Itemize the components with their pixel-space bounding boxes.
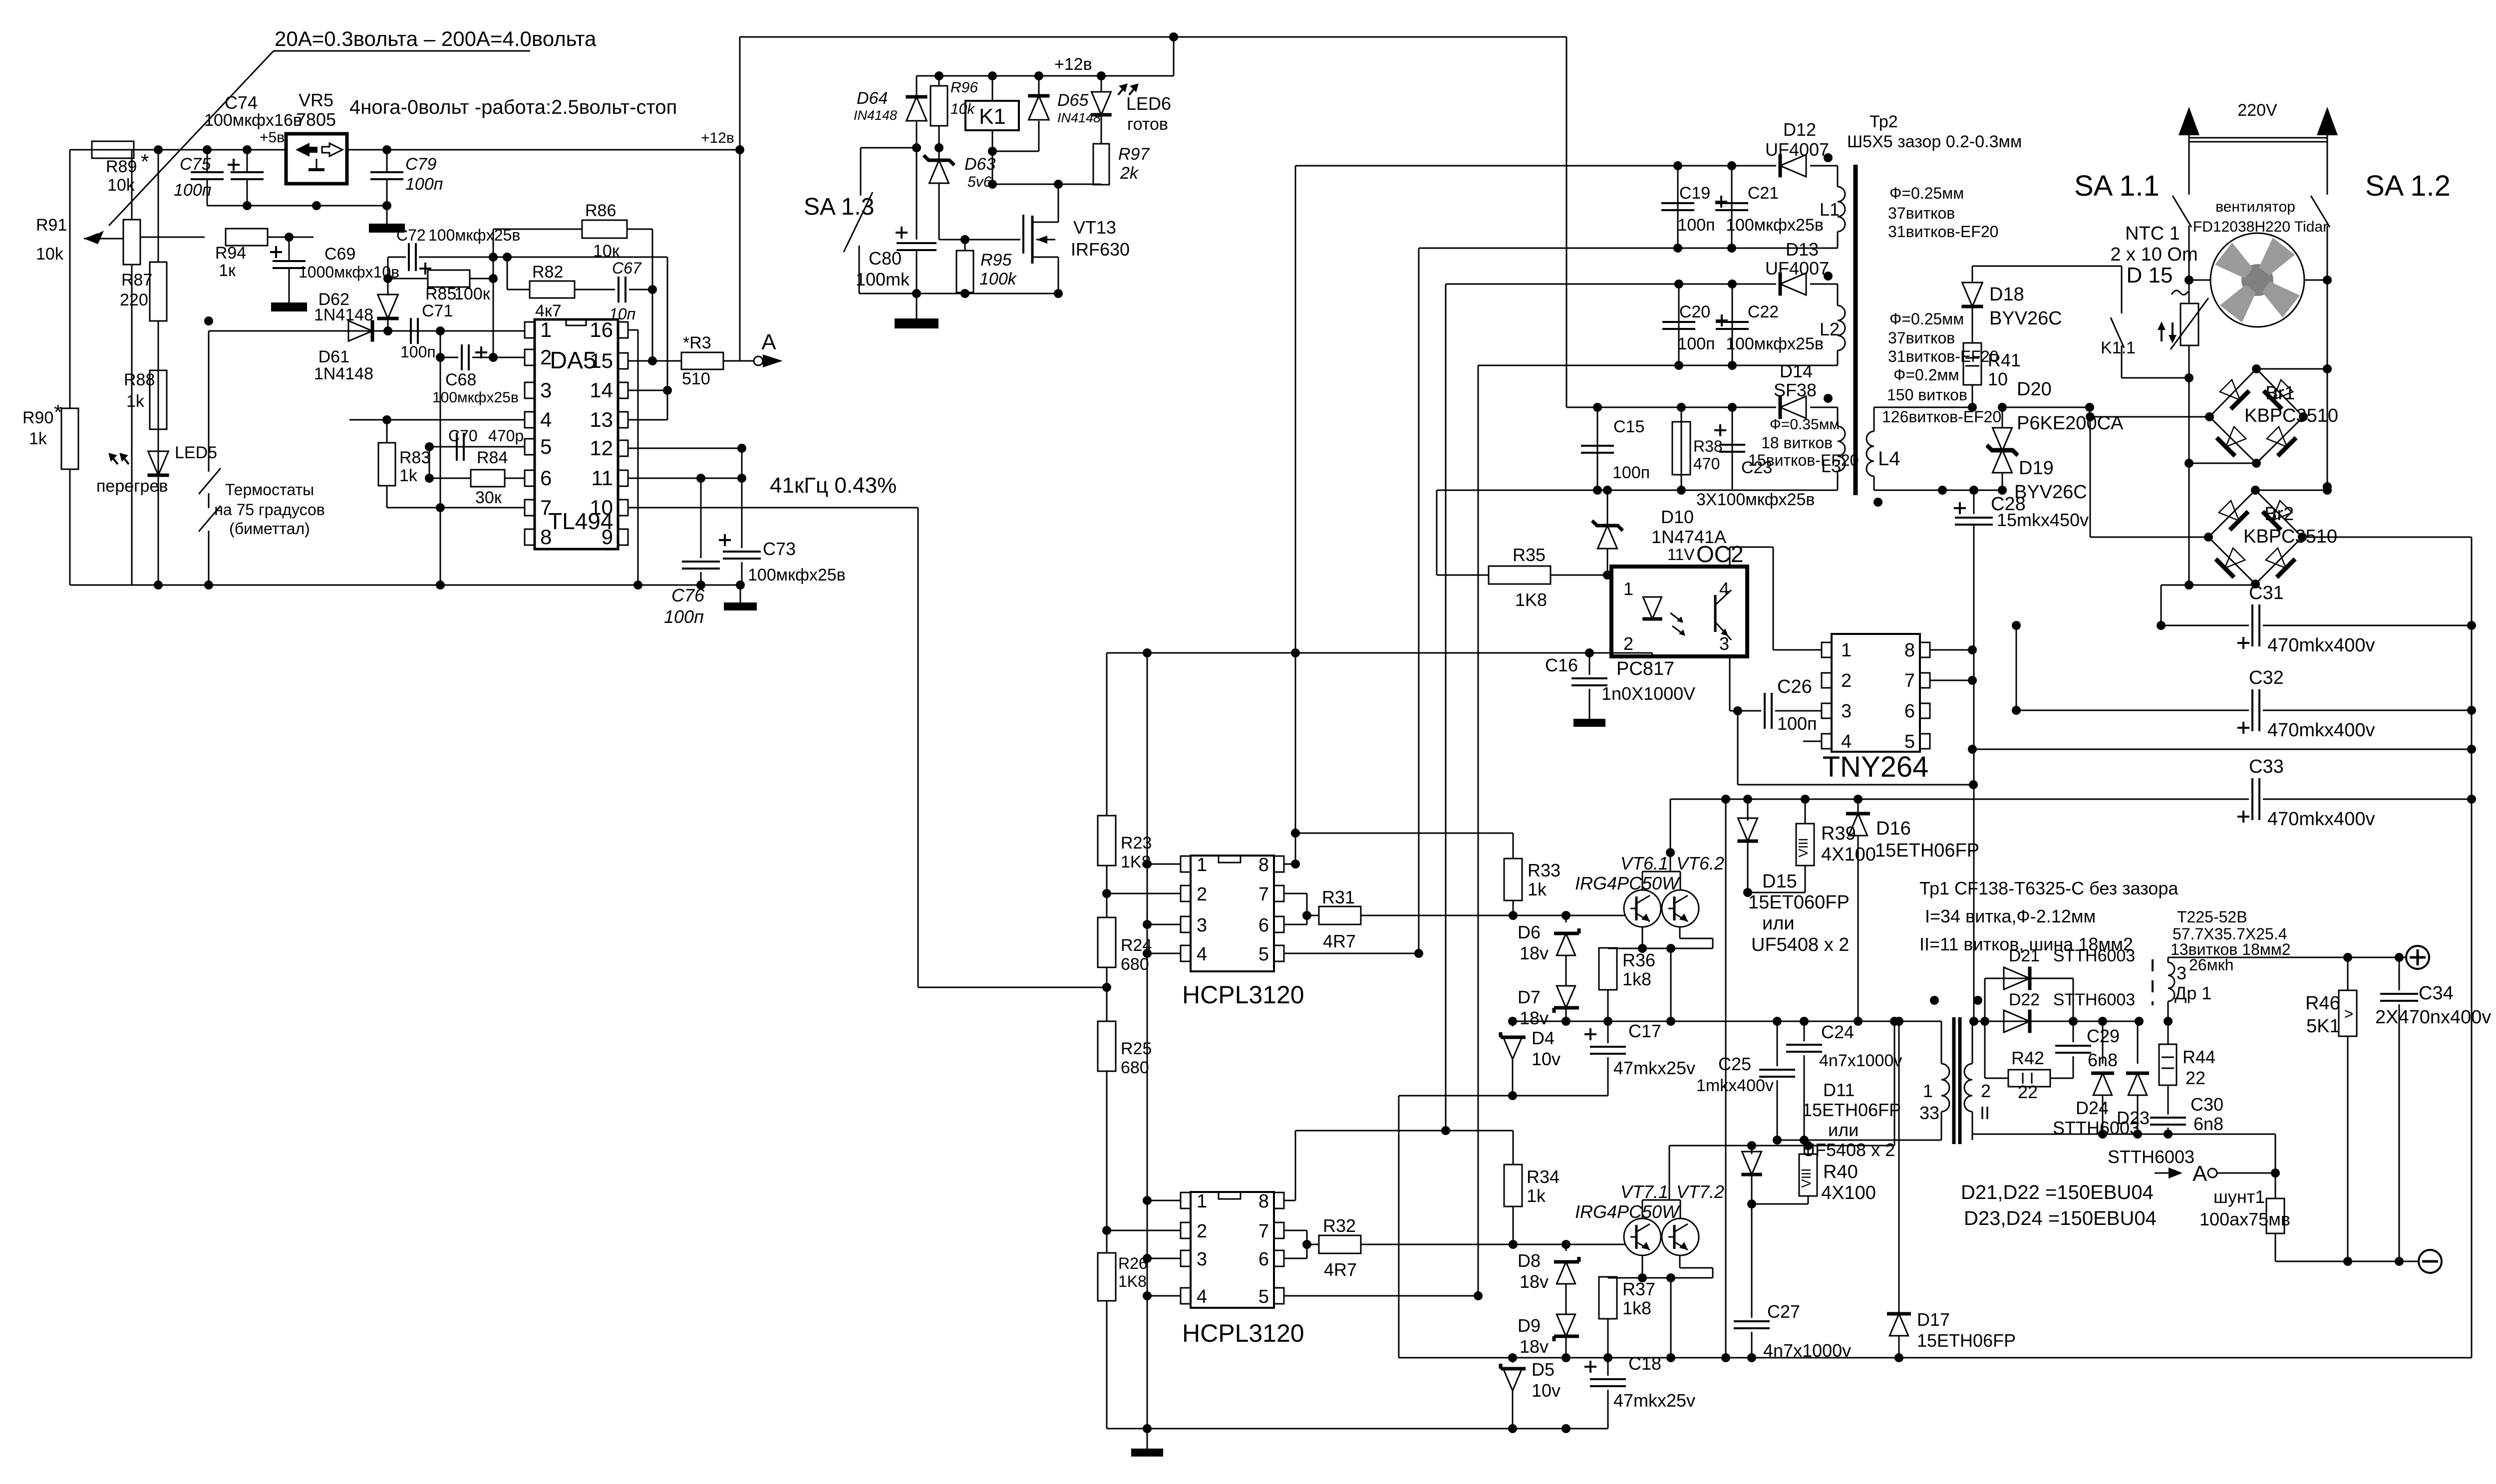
svg-text:C15: C15 [1613, 417, 1644, 436]
svg-text:D9: D9 [1518, 1315, 1541, 1336]
svg-text:100п: 100п [405, 175, 443, 194]
svg-text:4нога-0вольт -работа:2.5вольт-: 4нога-0вольт -работа:2.5вольт-стоп [349, 96, 677, 118]
svg-text:D7: D7 [1518, 987, 1541, 1007]
svg-text:1k: 1k [399, 466, 418, 485]
svg-text:D20: D20 [2017, 379, 2052, 400]
svg-text:R96: R96 [950, 79, 978, 96]
svg-text:D12: D12 [1783, 119, 1816, 140]
svg-text:15ETH06FP: 15ETH06FP [1875, 840, 1979, 861]
svg-text:4R7: 4R7 [1323, 931, 1356, 951]
svg-text:D18: D18 [1989, 284, 2024, 305]
svg-text:Тр1 CF138-Т6325-С без зазора: Тр1 CF138-Т6325-С без зазора [1919, 878, 2179, 898]
svg-text:10k: 10k [36, 245, 64, 264]
svg-text:R83: R83 [399, 448, 430, 467]
svg-text:(биметтал): (биметтал) [229, 520, 310, 538]
svg-text:22: 22 [2018, 1082, 2038, 1102]
svg-text:10: 10 [590, 496, 613, 519]
svg-text:6: 6 [1904, 701, 1915, 722]
svg-text:6: 6 [540, 466, 552, 490]
svg-text:VIII: VIII [1799, 1168, 1814, 1187]
svg-text:C21: C21 [1748, 184, 1779, 203]
svg-text:100к: 100к [454, 285, 491, 303]
svg-text:готов: готов [1127, 115, 1168, 134]
svg-text:18v: 18v [1520, 1008, 1549, 1028]
svg-text:+12в: +12в [701, 130, 734, 146]
svg-text:Ф=0.25мм: Ф=0.25мм [1889, 310, 1964, 328]
svg-text:C18: C18 [1628, 1353, 1661, 1374]
svg-text:11V: 11V [1667, 546, 1695, 564]
svg-text:C17: C17 [1628, 1021, 1661, 1041]
svg-text:D8: D8 [1518, 1250, 1541, 1271]
svg-text:UF4007: UF4007 [1765, 139, 1829, 160]
svg-text:HCPL3120: HCPL3120 [1182, 981, 1304, 1009]
svg-text:R38: R38 [1693, 437, 1723, 455]
svg-text:100k: 100k [979, 270, 1017, 289]
svg-text:1: 1 [1841, 640, 1852, 661]
svg-text:UF4007: UF4007 [1765, 258, 1829, 279]
svg-text:вентилятор: вентилятор [2215, 199, 2295, 215]
svg-text:VR5: VR5 [299, 90, 333, 110]
svg-text:8: 8 [1258, 855, 1269, 876]
svg-text:C26: C26 [1777, 676, 1812, 697]
svg-text:D61: D61 [318, 347, 349, 366]
svg-text:IN4148: IN4148 [854, 108, 897, 123]
svg-text:18 витков: 18 витков [1761, 434, 1833, 452]
svg-text:А: А [761, 330, 776, 354]
svg-text:C20: C20 [1679, 302, 1710, 321]
svg-text:16: 16 [590, 318, 613, 341]
svg-text:Ш5Х5 зазор 0.2-0.3мм: Ш5Х5 зазор 0.2-0.3мм [1847, 132, 2022, 151]
svg-text:1k: 1k [1528, 879, 1547, 899]
svg-text:С68: С68 [445, 370, 476, 389]
svg-text:15ETH06FP: 15ETH06FP [1917, 1330, 2016, 1351]
svg-text:D21,D22 =150EBU04: D21,D22 =150EBU04 [1961, 1182, 2154, 1203]
svg-text:Ф=0.35мм: Ф=0.35мм [1770, 416, 1840, 433]
svg-text:1k8: 1k8 [1622, 1298, 1651, 1318]
svg-text:C19: C19 [1679, 184, 1710, 203]
svg-text:1: 1 [1197, 1191, 1207, 1212]
svg-text:K1: K1 [979, 104, 1006, 129]
svg-text:D4: D4 [1532, 1028, 1555, 1048]
svg-text:D23,D24 =150EBU04: D23,D24 =150EBU04 [1964, 1207, 2157, 1229]
svg-text:C34: C34 [2419, 983, 2454, 1004]
svg-text:1k: 1k [1527, 1186, 1546, 1206]
svg-text:6: 6 [1258, 915, 1269, 936]
svg-text:PC817: PC817 [1616, 658, 1674, 679]
svg-text:10к: 10к [593, 242, 620, 261]
svg-text:UF5408 x 2: UF5408 x 2 [1751, 934, 1849, 955]
svg-text:13: 13 [590, 408, 613, 431]
svg-text:14: 14 [590, 378, 613, 402]
svg-text:FD12038H220 Tidar: FD12038H220 Tidar [2193, 219, 2328, 235]
svg-text:4: 4 [1197, 944, 1207, 965]
svg-text:Тр2: Тр2 [1870, 112, 1898, 131]
svg-text:1K8: 1K8 [1515, 590, 1547, 610]
svg-text:K1.1: K1.1 [2101, 338, 2136, 357]
svg-text:VIII: VIII [1796, 838, 1811, 857]
svg-text:D14: D14 [1780, 361, 1813, 381]
svg-text:SF38: SF38 [1774, 380, 1817, 400]
svg-text:R97: R97 [1118, 145, 1150, 164]
svg-text:Br1: Br1 [2265, 383, 2295, 404]
svg-text:510: 510 [682, 369, 710, 388]
svg-text:R88: R88 [124, 370, 155, 389]
svg-text:C31: C31 [2249, 583, 2284, 603]
svg-text:D63: D63 [964, 155, 995, 174]
svg-text:3: 3 [1197, 1249, 1207, 1270]
svg-text:SA 1.2: SA 1.2 [2365, 170, 2451, 202]
svg-text:5K1: 5K1 [2306, 1016, 2340, 1037]
svg-text:C16: C16 [1545, 655, 1578, 675]
svg-text:150 витков: 150 витков [1887, 386, 1967, 404]
svg-text:18v: 18v [1520, 943, 1549, 963]
svg-text:4n7x1000v: 4n7x1000v [1819, 1051, 1902, 1070]
svg-text:3: 3 [1841, 701, 1852, 722]
svg-text:D17: D17 [1917, 1309, 1950, 1330]
svg-text:20А=0.3вольта – 200А=4.0воль: 20А=0.3вольта – 200А=4.0вольта [275, 27, 597, 50]
svg-text:D5: D5 [1532, 1359, 1555, 1380]
svg-text:1k: 1k [126, 392, 145, 411]
svg-text:5: 5 [540, 435, 552, 458]
svg-text:26мкh: 26мкh [2189, 956, 2233, 974]
svg-text:шунт1: шунт1 [2213, 1187, 2265, 1207]
svg-text:4X100: 4X100 [1821, 844, 1876, 865]
svg-text:D24: D24 [2076, 1098, 2109, 1118]
svg-text:100ах75мв: 100ах75мв [2199, 1209, 2290, 1229]
svg-text:7: 7 [1258, 1221, 1269, 1242]
svg-text:R84: R84 [477, 448, 508, 467]
svg-text:R39: R39 [1821, 823, 1856, 844]
svg-text:1k: 1k [29, 429, 47, 448]
svg-text:C25: C25 [1718, 1054, 1751, 1074]
svg-text:220: 220 [120, 291, 148, 309]
svg-text:4R7: 4R7 [1324, 1259, 1357, 1280]
svg-text:100п: 100п [174, 181, 212, 200]
svg-text:D 15: D 15 [2127, 263, 2173, 288]
svg-text:1k8: 1k8 [1622, 969, 1651, 989]
svg-text:+12в: +12в [1054, 55, 1092, 74]
svg-text:C79: C79 [405, 155, 436, 174]
svg-text:30к: 30к [475, 488, 502, 507]
svg-text:2: 2 [1197, 884, 1207, 905]
svg-text:470mkx400v: 470mkx400v [2267, 809, 2375, 830]
svg-text:Br2: Br2 [2264, 504, 2294, 525]
svg-text:100мкфх25в: 100мкфх25в [1726, 334, 1824, 353]
svg-text:IRG4PC50W: IRG4PC50W [1575, 1201, 1680, 1222]
svg-text:D11: D11 [1823, 1080, 1855, 1100]
svg-text:5v6: 5v6 [967, 174, 992, 190]
svg-text:10k: 10k [950, 101, 975, 117]
svg-text:4n7x1000v: 4n7x1000v [1763, 1340, 1851, 1361]
svg-text:47mkx25v: 47mkx25v [1613, 1058, 1695, 1078]
svg-text:или: или [1762, 913, 1795, 934]
svg-text:100п: 100п [1677, 216, 1715, 235]
svg-text:22: 22 [2185, 1068, 2205, 1088]
svg-text:R37: R37 [1622, 1279, 1655, 1299]
svg-text:3: 3 [540, 378, 552, 402]
svg-text:*: * [141, 150, 149, 173]
svg-text:BYV26C: BYV26C [1989, 308, 2062, 329]
svg-text:4: 4 [1841, 731, 1852, 752]
svg-text:II=11 витков, шина 18мм2: II=11 витков, шина 18мм2 [1919, 934, 2133, 954]
svg-text:8: 8 [1258, 1191, 1269, 1212]
svg-text:R90: R90 [22, 408, 53, 427]
svg-text:R35: R35 [1513, 545, 1546, 565]
svg-text:C32: C32 [2249, 667, 2284, 688]
svg-text:4: 4 [540, 408, 552, 431]
svg-text:220V: 220V [2237, 101, 2277, 120]
svg-text:C75: C75 [180, 155, 211, 174]
svg-text:470mkx400v: 470mkx400v [2267, 720, 2375, 741]
svg-text:R41: R41 [1988, 350, 2021, 370]
svg-text:KBPC3510: KBPC3510 [2244, 405, 2338, 426]
svg-text:или: или [1828, 1120, 1859, 1140]
svg-text:на 75 градусов: на 75 градусов [214, 501, 325, 519]
svg-text:1K8: 1K8 [1118, 1272, 1147, 1290]
svg-text:7: 7 [540, 496, 552, 519]
svg-text:1к: 1к [219, 261, 236, 280]
svg-text:15витков-EF20: 15витков-EF20 [1748, 451, 1859, 469]
svg-text:15mkx450v: 15mkx450v [1997, 510, 2089, 530]
svg-text:470: 470 [1693, 455, 1720, 473]
svg-text:10k: 10k [107, 176, 135, 195]
svg-text:C72: C72 [396, 226, 426, 244]
svg-text:STTH6003: STTH6003 [2053, 990, 2135, 1009]
svg-text:C69: C69 [324, 245, 355, 264]
svg-text:VT7.2: VT7.2 [1676, 1182, 1724, 1202]
svg-text:*R3: *R3 [683, 333, 711, 352]
svg-text:1N4148: 1N4148 [314, 305, 373, 324]
svg-text:LED5: LED5 [175, 443, 217, 462]
svg-text:37витков: 37витков [1888, 329, 1955, 347]
svg-text:10v: 10v [1532, 1380, 1560, 1401]
svg-text:Ф=0.2мм: Ф=0.2мм [1893, 366, 1959, 384]
svg-text:I=34 витка,Ф-2.12мм: I=34 витка,Ф-2.12мм [1925, 906, 2096, 926]
svg-text:5: 5 [1258, 1286, 1269, 1307]
svg-text:12: 12 [590, 436, 613, 460]
svg-text:126витков-EF20: 126витков-EF20 [1882, 408, 2001, 426]
svg-text:R31: R31 [1322, 887, 1355, 907]
svg-text:3X100мкфх25в: 3X100мкфх25в [1696, 490, 1815, 509]
svg-text:R85: R85 [425, 285, 456, 303]
svg-text:D10: D10 [1661, 507, 1694, 527]
svg-text:37витков: 37витков [1888, 204, 1955, 222]
svg-text:680: 680 [1121, 955, 1149, 974]
svg-text:D13: D13 [1786, 239, 1819, 260]
svg-text:Т225-52В: Т225-52В [2177, 908, 2247, 926]
svg-text:R42: R42 [2011, 1048, 2044, 1068]
svg-text:100п: 100п [664, 606, 704, 627]
svg-text:+5в: +5в [260, 129, 285, 146]
svg-text:100мкфх25в: 100мкфх25в [1726, 216, 1824, 235]
svg-text:2 x 10 Om: 2 x 10 Om [2110, 244, 2197, 265]
svg-text:1N4148: 1N4148 [314, 364, 373, 383]
svg-text:IN4148: IN4148 [1057, 110, 1101, 125]
svg-text:33: 33 [1919, 1103, 1939, 1123]
svg-text:Др 1: Др 1 [2175, 983, 2211, 1003]
svg-text:TNY264: TNY264 [1823, 751, 1929, 783]
svg-text:D64: D64 [857, 89, 888, 108]
svg-text:10v: 10v [1532, 1049, 1560, 1069]
svg-text:100мкфх25в: 100мкфх25в [748, 566, 846, 585]
svg-text:15: 15 [590, 349, 613, 372]
svg-text:2: 2 [1197, 1221, 1207, 1242]
svg-text:C80: C80 [869, 248, 902, 269]
svg-text:2: 2 [1841, 670, 1852, 691]
svg-text:VT6.2: VT6.2 [1676, 853, 1724, 874]
svg-text:1n0X1000V: 1n0X1000V [1601, 683, 1695, 704]
svg-text:7805: 7805 [296, 109, 336, 130]
svg-text:4: 4 [1197, 1286, 1207, 1307]
svg-text:R33: R33 [1528, 860, 1560, 881]
svg-text:SA 1.1: SA 1.1 [2074, 170, 2160, 202]
svg-text:4X100: 4X100 [1821, 1183, 1876, 1203]
svg-text:3: 3 [2177, 963, 2186, 983]
svg-text:100п: 100п [400, 343, 436, 361]
svg-text:R87: R87 [121, 271, 152, 290]
svg-text:2k: 2k [1120, 164, 1139, 183]
svg-text:31витков-EF20: 31витков-EF20 [1888, 223, 1998, 241]
svg-text:6: 6 [1258, 1249, 1269, 1270]
svg-text:VT13: VT13 [1073, 217, 1116, 238]
svg-text:HCPL3120: HCPL3120 [1182, 1319, 1304, 1347]
svg-text:R95: R95 [980, 251, 1011, 270]
svg-text:C22: C22 [1748, 302, 1779, 321]
svg-text:5: 5 [1904, 731, 1915, 752]
svg-text:UF5408 x 2: UF5408 x 2 [1802, 1140, 1895, 1160]
svg-text:С67: С67 [612, 259, 642, 277]
svg-text:D65: D65 [1057, 91, 1088, 110]
svg-text:100п: 100п [1777, 713, 1817, 734]
svg-text:C30: C30 [2190, 1094, 2223, 1115]
svg-text:VT6.1: VT6.1 [1620, 853, 1668, 874]
svg-text:D19: D19 [2019, 458, 2054, 479]
svg-text:D22: D22 [2009, 990, 2040, 1009]
svg-text:41кГц 0.43%: 41кГц 0.43% [770, 473, 897, 498]
svg-text:>: > [2344, 1005, 2354, 1023]
svg-text:L4: L4 [1878, 448, 1900, 470]
svg-text:*: * [54, 400, 62, 424]
svg-text:3: 3 [1197, 915, 1207, 936]
svg-text:47mkx25v: 47mkx25v [1613, 1390, 1695, 1411]
svg-text:R44: R44 [2183, 1047, 2215, 1067]
svg-text:R40: R40 [1823, 1162, 1858, 1183]
svg-text:100мкфх16в: 100мкфх16в [204, 111, 302, 130]
svg-text:D16: D16 [1876, 818, 1911, 839]
svg-text:IRF630: IRF630 [1071, 239, 1130, 260]
svg-text:SA 1.3: SA 1.3 [804, 194, 874, 220]
svg-text:A: A [2192, 1162, 2207, 1186]
svg-text:OC2: OC2 [1696, 541, 1744, 567]
svg-text:R36: R36 [1622, 950, 1655, 970]
svg-text:перегрев: перегрев [96, 477, 168, 496]
svg-text:R82: R82 [532, 263, 563, 282]
svg-text:LED6: LED6 [1126, 93, 1171, 114]
svg-text:P6KE200CA: P6KE200CA [2017, 413, 2124, 434]
svg-text:7: 7 [1258, 884, 1269, 905]
svg-text:18v: 18v [1520, 1336, 1549, 1357]
svg-text:R94: R94 [215, 244, 246, 263]
svg-text:100п: 100п [1612, 463, 1650, 482]
svg-text:100п: 100п [1677, 334, 1715, 353]
svg-text:2: 2 [1981, 1081, 1991, 1101]
svg-text:2: 2 [540, 345, 552, 369]
svg-text:1: 1 [1923, 1081, 1933, 1101]
svg-text:1: 1 [540, 318, 552, 341]
svg-text:IRG4PC50W: IRG4PC50W [1575, 873, 1680, 893]
svg-text:C33: C33 [2249, 756, 2284, 777]
svg-text:470mkx400v: 470mkx400v [2267, 635, 2375, 656]
svg-text:100мкфх25в: 100мкфх25в [432, 389, 519, 406]
svg-text:Термостаты: Термостаты [225, 481, 314, 499]
svg-text:10: 10 [1988, 369, 2008, 389]
svg-text:D23: D23 [2117, 1108, 2150, 1128]
svg-text:8: 8 [1904, 640, 1915, 661]
svg-text:100mk: 100mk [856, 269, 910, 290]
svg-text:C71: C71 [422, 301, 453, 320]
svg-text:2: 2 [1623, 633, 1633, 654]
svg-text:1mkx400v: 1mkx400v [1696, 1076, 1774, 1095]
svg-text:R86: R86 [585, 201, 616, 220]
svg-text:II: II [1980, 1103, 1990, 1123]
svg-text:18v: 18v [1520, 1271, 1549, 1292]
svg-text:7: 7 [1904, 670, 1915, 691]
svg-text:6n8: 6n8 [2193, 1114, 2223, 1134]
svg-text:VT7.1: VT7.1 [1620, 1182, 1668, 1202]
svg-text:D15: D15 [1762, 871, 1797, 892]
svg-text:9: 9 [602, 525, 613, 549]
svg-text:C74: C74 [225, 92, 258, 113]
svg-text:C27: C27 [1767, 1301, 1800, 1322]
svg-text:1: 1 [1623, 579, 1633, 599]
svg-text:Ф=0.25мм: Ф=0.25мм [1889, 184, 1964, 202]
svg-text:R32: R32 [1323, 1215, 1356, 1236]
svg-text:D6: D6 [1518, 922, 1541, 942]
svg-text:R91: R91 [36, 216, 67, 235]
svg-text:STTH6003: STTH6003 [2108, 1147, 2194, 1167]
svg-text:С70: С70 [448, 427, 478, 445]
svg-text:470р: 470р [488, 427, 524, 445]
svg-text:680: 680 [1121, 1058, 1149, 1077]
svg-text:C73: C73 [763, 539, 796, 559]
svg-text:R34: R34 [1527, 1167, 1560, 1187]
svg-text:R46: R46 [2305, 993, 2340, 1014]
svg-text:NTC 1: NTC 1 [2125, 223, 2180, 244]
svg-text:1: 1 [1197, 855, 1207, 876]
svg-text:5: 5 [1258, 944, 1269, 965]
svg-text:С76: С76 [671, 585, 705, 605]
svg-text:15ET060FP: 15ET060FP [1748, 892, 1850, 913]
svg-text:15ETH06FP: 15ETH06FP [1802, 1100, 1901, 1120]
svg-text:2X470nx400v: 2X470nx400v [2375, 1007, 2491, 1028]
svg-text:8: 8 [540, 525, 552, 549]
svg-text:C24: C24 [1821, 1022, 1854, 1042]
svg-text:11: 11 [591, 466, 613, 490]
